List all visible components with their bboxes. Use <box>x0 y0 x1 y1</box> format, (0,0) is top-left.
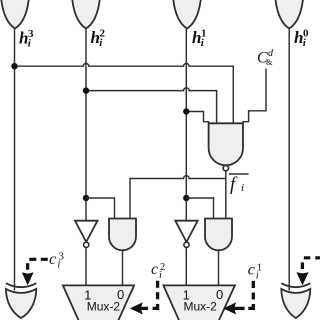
node: junction on h_i^1 at y=111.5 <box>183 108 189 114</box>
wire: h1 node to AND2 left input <box>186 198 213 219</box>
node: junction on h_i^3 at y=66 <box>11 63 17 69</box>
wire: h_i^3 vertical bus <box>14 29 16 291</box>
wire: inverter h1 output to MUX2 input 1 <box>185 247 187 285</box>
dashed select: c_i^2 tail stub <box>140 307 148 310</box>
label c_i^2 <box>151 261 165 281</box>
svg-text:i: i <box>159 270 162 281</box>
wire: AND1 output to MUX1 input 0 <box>122 250 124 285</box>
nand gate U1 output bubble <box>223 165 228 170</box>
dashed select: c_i^3 dashes to arrow <box>29 258 48 261</box>
wire: AND2 output to MUX2 input 0 <box>218 250 220 285</box>
wire: h_i^2 vertical bus <box>85 28 87 221</box>
wire: h_i^1 vertical bus <box>185 28 187 221</box>
dashed select: c_i^2 corner dash <box>153 304 158 308</box>
inverter (NOT) on h2 column <box>75 221 98 242</box>
label c_i^1 <box>248 262 262 282</box>
dashed select: c_i^0 horizontal dashes from right edge <box>304 256 320 259</box>
dashed select: c_i^3 vertical dash <box>26 263 29 270</box>
svg-text:i: i <box>57 260 60 271</box>
mux M2 (Mux-2 right) <box>163 285 235 320</box>
svg-text:Mux-2: Mux-2 <box>87 300 121 314</box>
wire: NAND output down to AND2 right input <box>225 171 227 219</box>
wire: c_&^d down and staircase into NAND right input <box>243 69 266 124</box>
xor gate X3 (bottom left) body <box>6 289 36 318</box>
svg-text:c: c <box>49 251 56 268</box>
mux M1 (Mux-2 left) <box>63 285 134 320</box>
svg-text:Mux-2: Mux-2 <box>184 300 218 314</box>
xor gate (top, output stub of h_i^0 column) <box>275 0 304 29</box>
svg-text:&: & <box>266 57 273 67</box>
arrow: c_i^0 into XOR X0 <box>296 272 308 285</box>
label fbar_i <box>230 174 244 195</box>
svg-text:i: i <box>256 270 259 281</box>
wire: inverter h2 output to MUX1 input 1 <box>85 247 87 285</box>
node: junction on h_i^1 at y=198 <box>183 195 189 201</box>
label c_i^3 <box>49 251 64 271</box>
dashed select: c_i^1 vertical dashes <box>252 281 255 300</box>
svg-text:c: c <box>248 262 255 279</box>
node: junction on h_i^2 at y=90.6 <box>83 87 89 93</box>
wire: fbar horizontal branch (hop over h1) to AND1 right input <box>130 176 226 219</box>
dashed select: c_i^0 vertical dash <box>301 262 304 269</box>
label h_i^3 <box>19 28 34 50</box>
arrow: c_i^3 into XOR X3 <box>22 272 34 285</box>
label h_i^0 <box>294 28 309 50</box>
wire: from h_i^2 node across (hop over h1) down to NAND input <box>86 88 217 124</box>
svg-text:i: i <box>241 182 244 194</box>
inverter bubble (h1) <box>184 242 189 247</box>
nand gate U1 (4-input, pointing down) <box>209 123 243 165</box>
xor gate (top, output stub of h_i^1 column) <box>173 0 202 29</box>
wire: h_i^0 vertical bus <box>288 29 290 291</box>
svg-text:0: 0 <box>216 287 223 302</box>
arrow: c_i^2 into MUX1 select <box>130 302 143 314</box>
svg-text:f: f <box>230 174 238 195</box>
xor gate X3 input arc <box>6 283 36 287</box>
xor gate X0 input arc <box>281 283 310 287</box>
inverter bubble (h2) <box>84 242 89 247</box>
dashed select: c_i^1 tail stub <box>234 307 245 310</box>
xor gate (top, output stub of h_i^3 column) <box>1 0 30 29</box>
label h_i^2 <box>91 28 106 50</box>
label h_i^1 <box>192 28 207 50</box>
and gate A1 (left, pointing down) <box>109 219 136 251</box>
xor gate (top, output stub of h_i^2 column) <box>72 0 101 29</box>
wire: overline of f_i <box>229 173 249 175</box>
wire: h2 node to AND1 left input <box>86 198 115 219</box>
wire: from h_i^1 node staircase into NAND left input <box>186 112 208 124</box>
dashed select: c_i^2 vertical dashes <box>156 281 159 300</box>
label c_&^d <box>257 48 274 67</box>
xor gate X0 (bottom right) body <box>281 289 310 318</box>
svg-text:c: c <box>151 261 158 278</box>
wire: from h_i^3 node across (hops over h2,h1) down to NAND input <box>15 63 234 123</box>
arrow: c_i^1 into MUX2 select <box>223 302 236 314</box>
inverter (NOT) on h1 column <box>175 221 197 242</box>
and gate A2 (right, pointing down) <box>205 219 232 251</box>
node: junction on h_i^2 at y=198 <box>83 195 89 201</box>
dashed select: c_i^1 corner dash <box>248 304 253 308</box>
